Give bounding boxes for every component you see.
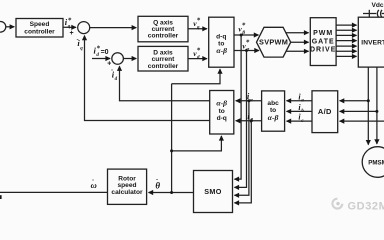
- svg-text:=0: =0: [101, 49, 109, 56]
- svg-text:Vdc: Vdc: [372, 2, 384, 9]
- svg-text:q: q: [197, 26, 200, 31]
- svg-text:Speed: Speed: [30, 21, 50, 28]
- svg-text:PMSM: PMSM: [368, 159, 384, 166]
- svg-text:α-β: α-β: [216, 46, 227, 55]
- svg-text:d-q: d-q: [217, 115, 227, 122]
- svg-text:d: d: [96, 53, 99, 58]
- svg-text:β: β: [241, 30, 245, 36]
- svg-text:SMO: SMO: [204, 187, 222, 196]
- svg-text:A/D: A/D: [318, 107, 332, 116]
- svg-text:+: +: [107, 60, 111, 67]
- svg-text:α-β: α-β: [216, 99, 227, 108]
- svg-text:INVERTER: INVERTER: [361, 40, 384, 47]
- svg-text:α-β: α-β: [268, 113, 279, 122]
- svg-text:GD32MCU: GD32MCU: [348, 201, 384, 213]
- svg-text:β: β: [249, 118, 253, 124]
- svg-text:α: α: [246, 47, 250, 53]
- svg-text:d: d: [115, 77, 118, 82]
- svg-text:*: *: [197, 47, 201, 55]
- svg-text:PWM: PWM: [313, 30, 333, 37]
- svg-text:+: +: [70, 30, 74, 37]
- svg-text:controller: controller: [24, 28, 55, 35]
- svg-text:DRIVE: DRIVE: [310, 47, 336, 54]
- svg-text:to: to: [219, 108, 225, 115]
- svg-text:abc: abc: [267, 100, 279, 107]
- svg-text:SVPWM: SVPWM: [259, 38, 288, 47]
- svg-text:d-q: d-q: [216, 34, 226, 41]
- svg-text:controller: controller: [148, 33, 179, 40]
- svg-text:*: *: [246, 39, 250, 47]
- svg-text:controller: controller: [148, 63, 179, 70]
- svg-text:GATE: GATE: [312, 38, 335, 45]
- svg-text:*: *: [68, 16, 72, 24]
- svg-text:q: q: [80, 46, 83, 51]
- svg-text:*: *: [242, 22, 246, 30]
- svg-text:calculator: calculator: [111, 189, 143, 196]
- svg-text:*: *: [197, 17, 201, 25]
